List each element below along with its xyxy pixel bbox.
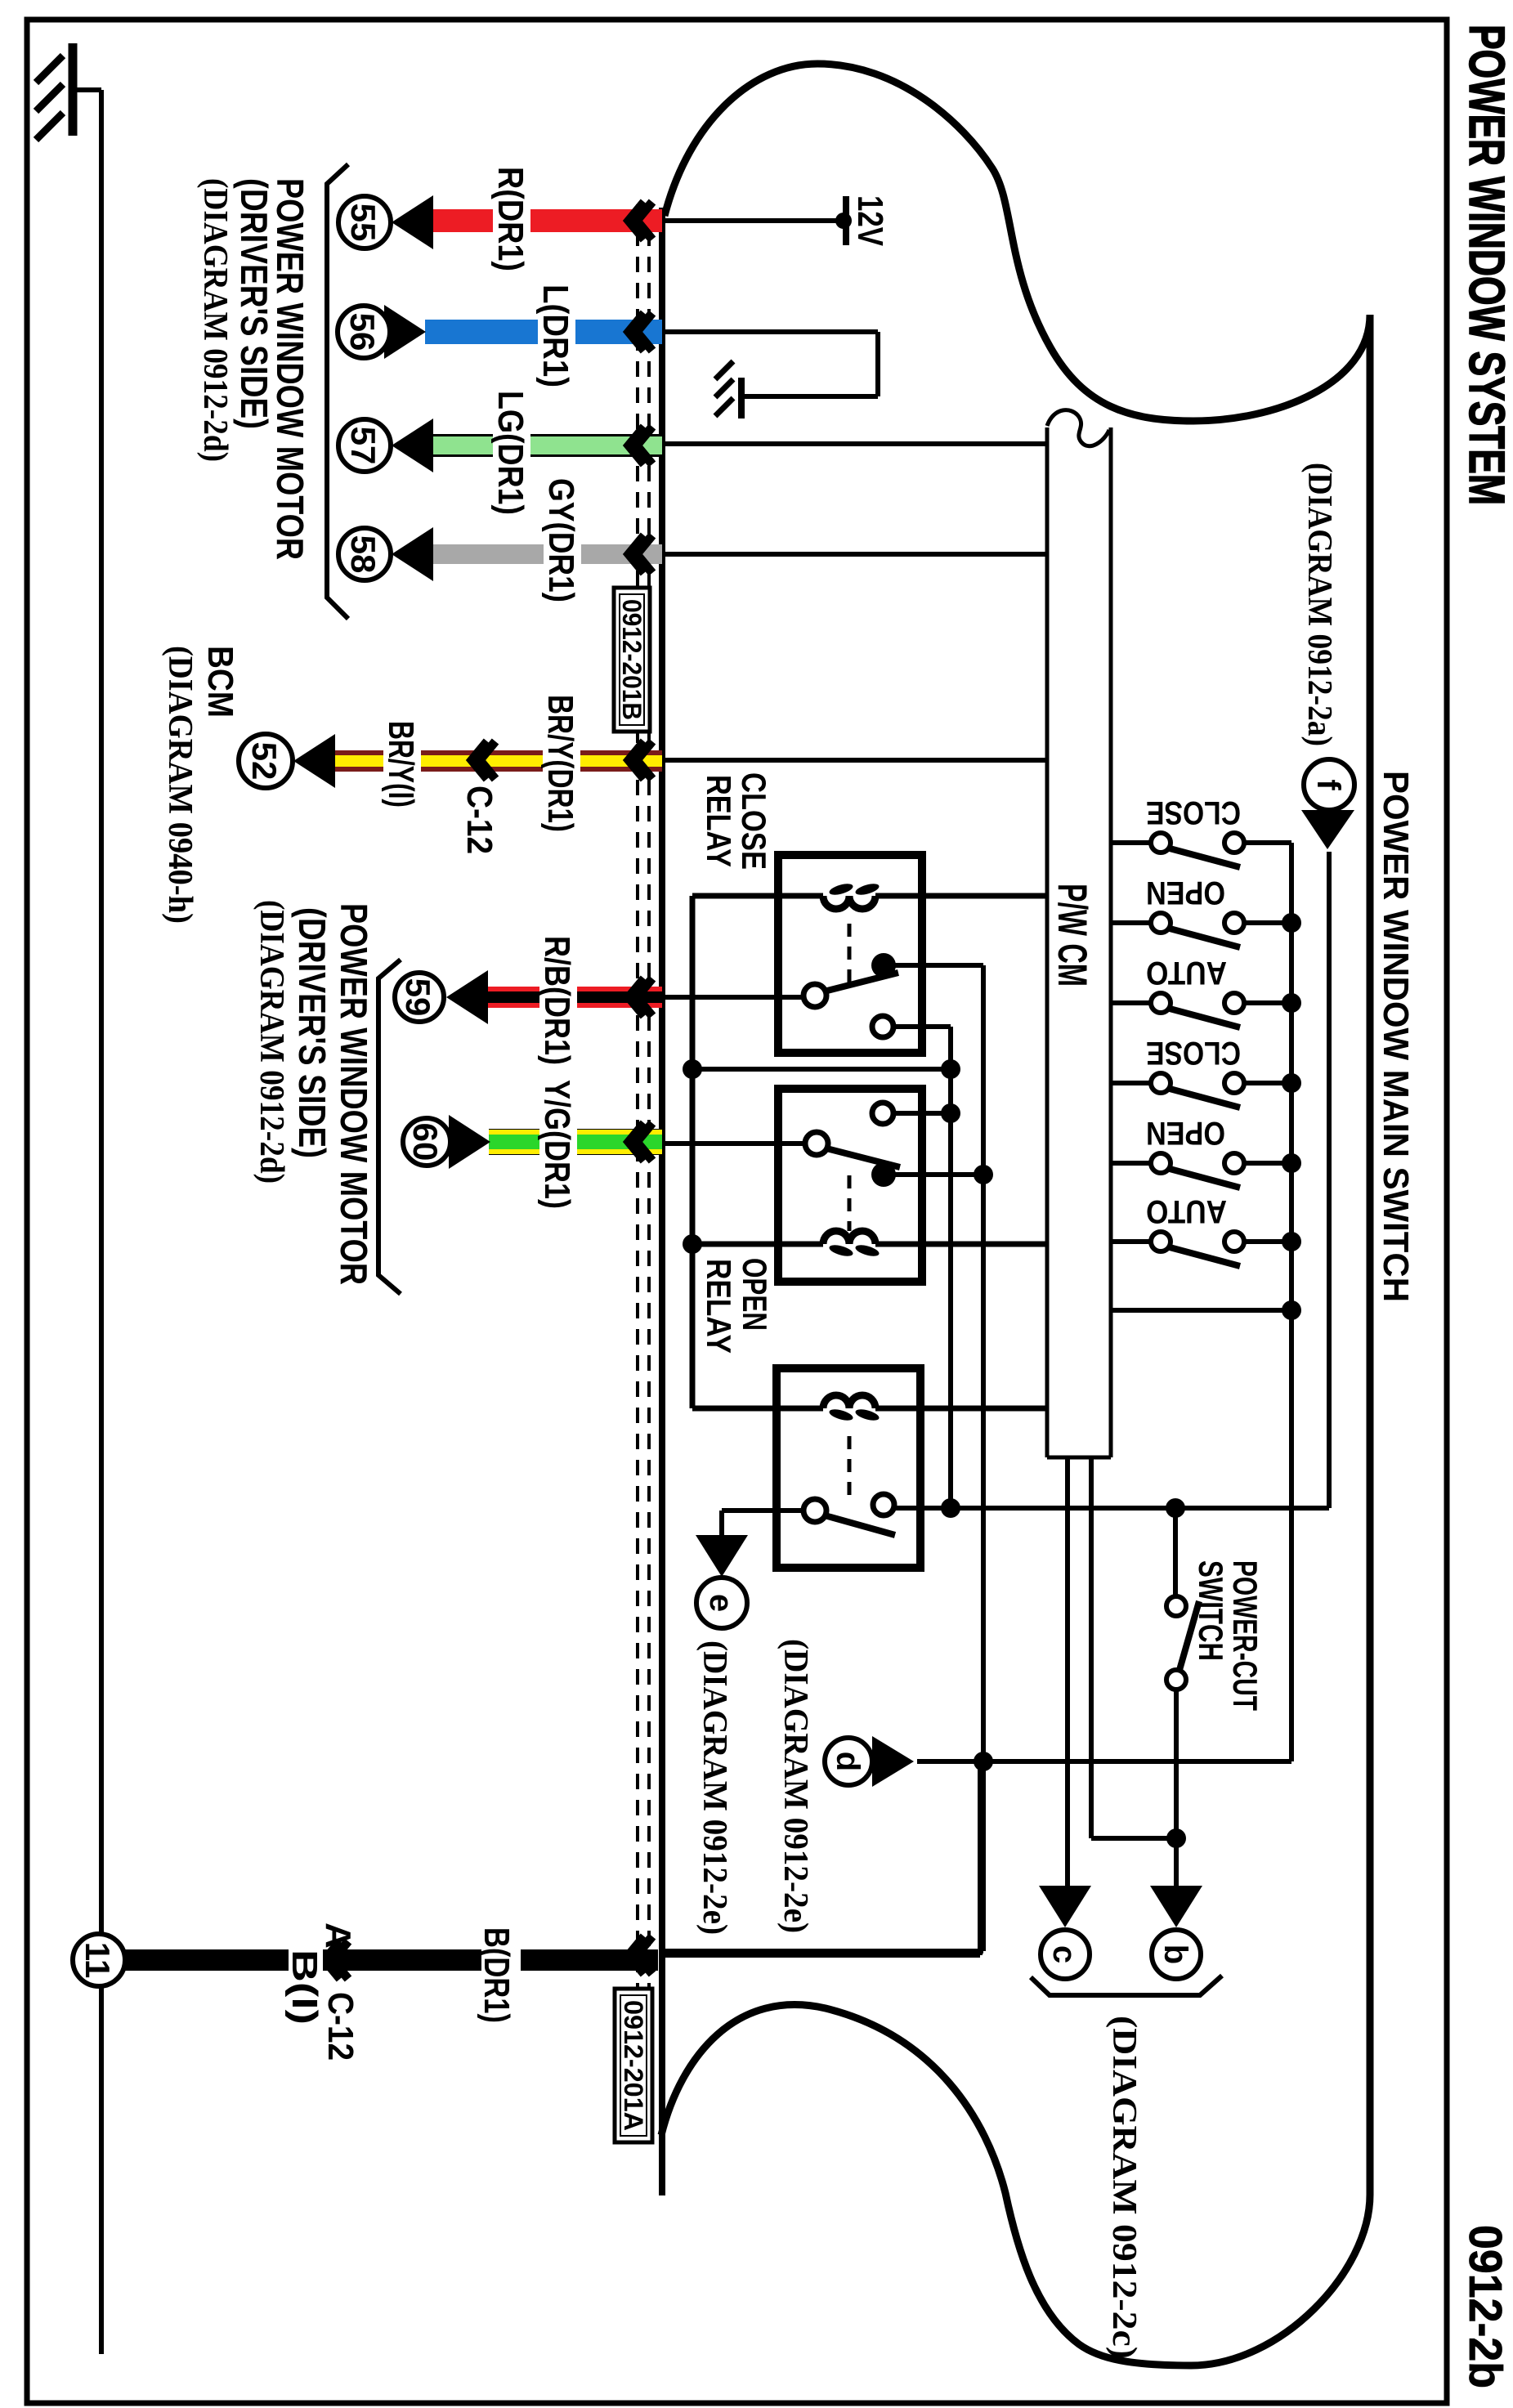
svg-text:SWITCH: SWITCH [1192, 1560, 1230, 1661]
12V terminal [835, 213, 852, 229]
label B(I) [289, 1947, 323, 2029]
wire R/B red-black [488, 987, 662, 1008]
switch CLOSE S4 [1111, 1035, 1291, 1108]
wire Y/G yellow-green [489, 1129, 662, 1155]
junction d net ground [974, 1752, 993, 1771]
ground G1 [73, 87, 101, 92]
wire power-cut to b [1174, 1690, 1179, 1886]
svg-text:R/B(DR1): R/B(DR1) [537, 936, 577, 1065]
relay2 common contact [805, 1132, 828, 1155]
svg-text:0912-201B: 0912-201B [617, 599, 647, 720]
wire BR/Y to P/W CM [662, 758, 1045, 763]
svg-text:POWER WINDOW MAIN SWITCH: POWER WINDOW MAIN SWITCH [1376, 771, 1416, 1302]
switch connector edge line [659, 208, 665, 2195]
node 52 [239, 734, 293, 788]
relay3 coil [875, 1406, 916, 1412]
wire LG(DR1) light green [433, 434, 662, 457]
relay1 armature [824, 973, 898, 991]
junction relay2 NO [893, 1111, 951, 1116]
svg-text:POWER WINDOW SYSTEM: POWER WINDOW SYSTEM [1459, 25, 1513, 505]
node b [1152, 1930, 1201, 1979]
label R(DR1) [493, 163, 530, 274]
node 55 [338, 196, 391, 248]
wire coil net horizontal [692, 893, 782, 899]
terminal arrow 60 [449, 1115, 490, 1169]
junction net-E to coil net [692, 1067, 951, 1072]
node 60 [403, 1118, 450, 1166]
connector chevron R [637, 202, 652, 239]
switch AUTO S3 [1111, 955, 1291, 1027]
wire B ground vertical [122, 1949, 658, 1971]
svg-text:OPEN: OPEN [1146, 875, 1225, 911]
relay1 NO contact [872, 1016, 893, 1037]
wire B inside to d-net [662, 1953, 980, 1958]
wire LG to P/W CM [662, 441, 1047, 446]
relay1 NC contact dot [871, 953, 896, 978]
node 59 [395, 973, 444, 1022]
svg-text:RELAY: RELAY [700, 1259, 738, 1354]
junction b/c cap2 [1166, 1828, 1186, 1848]
svg-text:AUTO: AUTO [1146, 955, 1227, 991]
terminal arrow e [696, 1535, 748, 1577]
terminal arrow 55 [392, 195, 433, 249]
switch AUTO S6 [1111, 1193, 1291, 1266]
wire P/W CM cap2 to b [1089, 1457, 1094, 1838]
node 58 [338, 528, 391, 580]
svg-text:d: d [830, 1752, 866, 1771]
label LG(DR1) [493, 387, 530, 518]
connector chevron Y/G [637, 1123, 652, 1161]
svg-text:C-12: C-12 [320, 1992, 360, 2061]
switch feed bus [1289, 843, 1294, 1761]
node 57 [338, 419, 391, 472]
svg-text:POWER-CUT: POWER-CUT [1226, 1560, 1265, 1711]
node 11 [73, 1934, 125, 1986]
relay3 NO contact [873, 1494, 894, 1515]
connector chevron BR/Y [637, 741, 652, 779]
connector chevron R/B [637, 978, 652, 1016]
svg-text:OPEN: OPEN [1146, 1115, 1225, 1151]
terminal arrow 58 [392, 527, 433, 581]
svg-text:e: e [703, 1594, 739, 1612]
svg-text:BR/Y(I): BR/Y(I) [381, 721, 421, 808]
svg-text:P/W CM: P/W CM [1050, 884, 1095, 987]
wire bus to P/W CM [1111, 1308, 1291, 1313]
svg-text:LG(DR1): LG(DR1) [490, 391, 530, 515]
svg-text:b: b [1157, 1945, 1193, 1964]
wire R(DR1) red [433, 209, 662, 232]
label GY(DR1) [544, 475, 581, 606]
wire relay3 coil to P/W CM [916, 1406, 1047, 1412]
svg-text:52: 52 [245, 742, 284, 781]
svg-text:0912-2b: 0912-2b [1459, 2225, 1511, 2388]
label B(DR1) [481, 1926, 521, 2025]
switch CLOSE S1 [1111, 794, 1291, 867]
connector dashed line 2 [636, 204, 639, 2004]
power-cut switch arm [1180, 1601, 1199, 1670]
wire relay1 coil to P/W CM [922, 893, 1047, 899]
terminal arrow 52 [293, 734, 335, 788]
relay1 common contact [804, 984, 826, 1007]
wire L to ground [662, 329, 878, 334]
svg-text:57: 57 [344, 427, 383, 465]
terminal arrow d [872, 1736, 914, 1787]
terminal arrow c [1039, 1886, 1091, 1927]
svg-text:RELAY: RELAY [700, 775, 738, 867]
ground G2 [738, 378, 745, 418]
svg-text:11: 11 [78, 1942, 117, 1978]
node 56 [338, 306, 390, 358]
svg-text:60: 60 [406, 1123, 445, 1161]
svg-text:f: f [1310, 779, 1346, 790]
switch OPEN S2 [1111, 875, 1291, 947]
svg-text:0912-201A: 0912-201A [619, 2000, 648, 2131]
svg-text:12V: 12V [850, 195, 890, 247]
svg-text:BR/Y(DR1): BR/Y(DR1) [540, 695, 580, 832]
relay3 common contact [804, 1499, 826, 1522]
svg-text:GY(DR1): GY(DR1) [541, 478, 581, 602]
relay1 coil [875, 893, 918, 899]
wire relay3 common to e arrow [722, 1508, 804, 1513]
junction net-E at f wire [941, 1498, 960, 1518]
power window main switch outline [661, 64, 1370, 2365]
connector C-12 chevron on B wire [333, 1941, 348, 1979]
svg-text:(DIAGRAM 0940-h): (DIAGRAM 0940-h) [161, 646, 199, 924]
wire bus to d [917, 1759, 1291, 1764]
svg-text:c: c [1046, 1945, 1082, 1963]
relay3 box [777, 1368, 920, 1568]
node f [1304, 759, 1354, 810]
wire GY(DR1) gray [433, 544, 662, 564]
svg-text:58: 58 [344, 535, 383, 574]
relay2 NO contact [872, 1103, 893, 1124]
relay2 NC contact dot [871, 1162, 896, 1187]
label Y/G(DR1) [539, 1076, 577, 1212]
label BR/Y(DR1) [543, 692, 580, 837]
svg-text:56: 56 [343, 313, 382, 351]
svg-text:POWER WINDOW MOTOR: POWER WINDOW MOTOR [333, 903, 375, 1285]
wire power-cut feed branch [1166, 1498, 1185, 1518]
wire f to relay3 NO [1327, 852, 1332, 1508]
bracket motor 55-58 [327, 164, 348, 619]
terminal arrow 56 [384, 305, 426, 359]
svg-text:CLOSE: CLOSE [735, 772, 773, 870]
wire 12V feed [662, 218, 844, 223]
connector chevron B at switch [637, 1936, 652, 1974]
connector chevron GY [637, 535, 652, 573]
bracket motor 59-60 [378, 960, 401, 1294]
node e [696, 1578, 747, 1628]
relay3 armature [825, 1515, 895, 1535]
svg-text:AUTO: AUTO [1146, 1193, 1227, 1229]
wire Y/G to relay2 common [662, 1141, 812, 1146]
junction relay2 NC [884, 1172, 983, 1177]
connector dashed line 1 [647, 204, 651, 2004]
connector chevron L [637, 313, 652, 351]
relay3 coil dashed link [848, 1436, 852, 1502]
terminal arrow 57 [392, 418, 433, 472]
label BR/Y(I) [383, 718, 421, 812]
svg-text:55: 55 [344, 204, 383, 242]
node c [1041, 1930, 1090, 1979]
svg-text:(DRIVER'S SIDE): (DRIVER'S SIDE) [233, 178, 275, 429]
svg-text:59: 59 [399, 978, 437, 1017]
terminal arrow 59 [446, 970, 488, 1024]
wire net-E relay NO bus [893, 1024, 951, 1029]
svg-text:B(DR1): B(DR1) [477, 1927, 517, 2023]
svg-text:(DIAGRAM 0912-2c): (DIAGRAM 0912-2c) [1105, 2016, 1143, 2359]
svg-text:CLOSE: CLOSE [1146, 794, 1241, 830]
svg-text:Y/G(DR1): Y/G(DR1) [537, 1080, 577, 1209]
relay2 coil dashed link [848, 1175, 852, 1231]
svg-text:CLOSE: CLOSE [1146, 1035, 1241, 1071]
svg-text:(DRIVER'S SIDE): (DRIVER'S SIDE) [291, 907, 333, 1158]
switch OPEN S5 [1111, 1115, 1291, 1188]
wire BR/Y brown-yellow to BCM [335, 750, 662, 772]
connector chevron LG [637, 427, 652, 464]
relay2 armature [826, 1148, 900, 1167]
terminal arrow b [1150, 1886, 1202, 1927]
wire relay2 coil to P/W CM [922, 1242, 1047, 1247]
junction relay2 coil [692, 1242, 782, 1247]
svg-text:L(DR1): L(DR1) [535, 284, 575, 387]
svg-text:OPEN: OPEN [736, 1258, 774, 1331]
svg-text:(DIAGRAM 0912-2a): (DIAGRAM 0912-2a) [1300, 463, 1338, 746]
label L(DR1) [538, 281, 575, 392]
relay1 coil dashed link [848, 924, 852, 991]
connector label box 0912-201A [615, 1989, 652, 2142]
svg-text:R(DR1): R(DR1) [490, 167, 530, 271]
wire P/W CM to c [1065, 1457, 1070, 1886]
relay2 coil [875, 1242, 918, 1247]
bracket b/c [1031, 1976, 1222, 1995]
wire R/B to relay1 common [662, 995, 810, 1000]
label R/B(DR1) [539, 933, 577, 1068]
node d [825, 1738, 872, 1785]
power-cut switch contacts [1166, 1596, 1186, 1616]
wire GY to P/W CM [662, 552, 1047, 557]
svg-text:(DIAGRAM 0912-2d): (DIAGRAM 0912-2d) [196, 178, 234, 462]
wire L(DR1) blue [425, 320, 662, 344]
svg-text:(DIAGRAM 0912-2d): (DIAGRAM 0912-2d) [253, 900, 290, 1184]
relay CLOSE RELAY box [778, 855, 922, 1053]
svg-text:C-12: C-12 [459, 786, 499, 854]
ground bus wire [99, 90, 104, 2354]
svg-text:(DIAGRAM 0912-2e): (DIAGRAM 0912-2e) [777, 1639, 814, 1933]
relay OPEN RELAY box [778, 1089, 922, 1282]
P/W CM module bar [1109, 427, 1113, 1457]
wire net-D relay1 NC to d and B [884, 963, 983, 968]
svg-text:(DIAGRAM 0912-2e): (DIAGRAM 0912-2e) [696, 1640, 733, 1935]
svg-text:B(I): B(I) [284, 1949, 325, 2025]
connector label box 0912-201B [614, 588, 650, 732]
terminal arrow f [1301, 810, 1354, 849]
svg-text:BCM: BCM [200, 646, 240, 718]
in-line connector C-12 chevron BR/Y [480, 741, 495, 779]
